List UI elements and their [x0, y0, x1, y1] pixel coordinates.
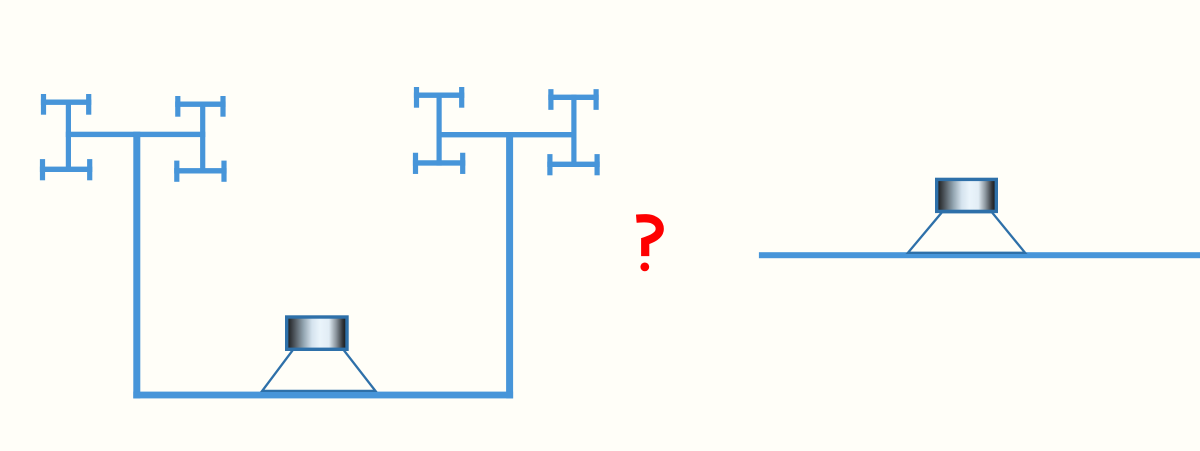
wire (left group down lead): [133, 132, 140, 399]
element A1 (left group, left I-beam element): [40, 94, 92, 180]
element A2 (left group, right I-beam element): [174, 96, 226, 182]
wire (bottom rail of left circuit): [133, 392, 513, 399]
wire (right group down lead): [506, 132, 513, 398]
wire (right group crossbar): [437, 132, 577, 137]
speaker LS1 magnet: [287, 317, 347, 349]
wire (left group crossbar): [66, 132, 206, 137]
question mark: [636, 218, 659, 271]
wire (right circuit rail): [759, 252, 1200, 258]
speaker LS2 magnet: [937, 179, 997, 211]
element B2 (right group, right I-beam element): [547, 89, 599, 175]
speaker LS1 cone: [262, 349, 375, 391]
element B1 (right group, left I-beam element): [413, 87, 465, 174]
speaker LS2 cone: [908, 212, 1025, 253]
